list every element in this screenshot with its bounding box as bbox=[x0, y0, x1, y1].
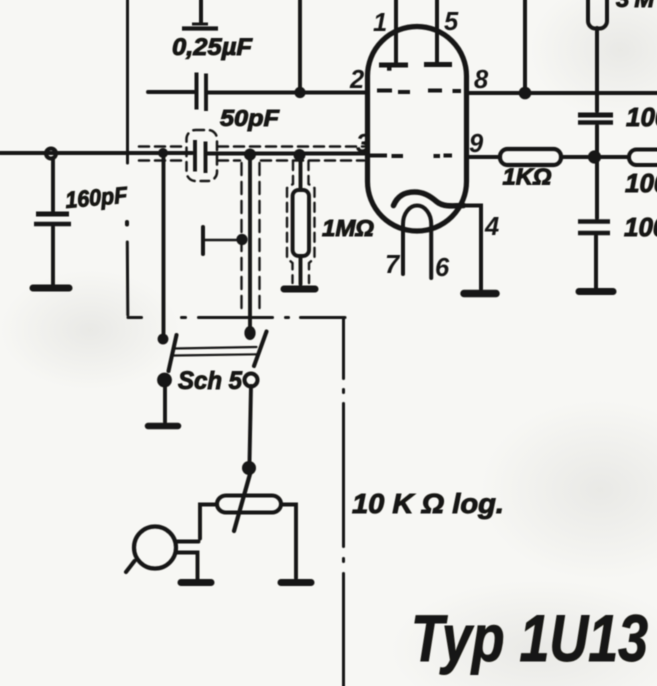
svg-text:1MΩ: 1MΩ bbox=[322, 215, 374, 241]
wire 0.25uF left lead bbox=[148, 90, 194, 94]
node A input terminal bbox=[46, 149, 56, 159]
potentiometer P1 body bbox=[217, 496, 281, 513]
junction wiper dot bbox=[242, 461, 256, 475]
junction grid2 to switch right shield bbox=[244, 149, 256, 161]
svg-text:0,25µF: 0,25µF bbox=[172, 34, 253, 61]
microphone M1 bbox=[134, 527, 176, 569]
resistor R3 top right partial bbox=[588, 0, 607, 29]
svg-text:3M.: 3M. bbox=[616, 0, 657, 13]
svg-text:Sch 5: Sch 5 bbox=[178, 367, 243, 395]
capacitor C2 50pF bbox=[195, 140, 206, 173]
ground under 160pF bbox=[33, 285, 69, 292]
grid1 dashed electrode bbox=[377, 91, 461, 93]
svg-text:6: 6 bbox=[435, 254, 450, 282]
wire grid2 input line left bbox=[0, 151, 192, 155]
junction grid1 bbox=[294, 87, 305, 98]
heater filament loop bbox=[403, 206, 431, 279]
switch Sch5 left contact dot bbox=[158, 334, 169, 345]
junction grid2 to switch left bbox=[158, 148, 168, 158]
wire shield chain bottom horizontal bbox=[128, 316, 345, 319]
microphone handle bbox=[126, 561, 135, 572]
wire rail segments bbox=[596, 28, 597, 290]
wire grid1 line pin2 bbox=[208, 91, 368, 95]
svg-text:7: 7 bbox=[385, 251, 401, 279]
svg-text:8: 8 bbox=[474, 66, 489, 94]
svg-text:2: 2 bbox=[349, 66, 364, 94]
capacitor C1 0.25uF bbox=[197, 73, 207, 112]
wire pin5 lead from top bbox=[435, 0, 439, 62]
wire pot right lead bbox=[281, 505, 296, 579]
wire vertical from top to pin8 junction bbox=[523, 0, 527, 93]
switch coupling double line bbox=[174, 347, 257, 356]
potentiometer P1 wiper arm bbox=[234, 474, 250, 531]
svg-text:100: 100 bbox=[624, 212, 657, 242]
cathode arc bbox=[394, 192, 464, 206]
junction tap dot bbox=[236, 234, 247, 245]
shield dashed pair down to switch bbox=[242, 163, 260, 314]
ground pin4 bbox=[464, 290, 496, 298]
ground under rail bbox=[579, 288, 613, 295]
anode plate bar right bbox=[424, 62, 452, 67]
capacitor C1a top plate to edge bbox=[182, 0, 218, 29]
junction grid2 to 1M resistor bbox=[294, 149, 306, 161]
wire pin9 to 1K bbox=[466, 155, 500, 159]
ground switch bbox=[148, 423, 178, 430]
wire 1K to rail junction bbox=[561, 155, 629, 159]
wire 1M bottom lead bbox=[299, 256, 303, 284]
junction pin8 bbox=[519, 87, 532, 100]
resistor R4 right partial bbox=[629, 150, 657, 166]
wire switch left to ground bbox=[163, 387, 167, 422]
capacitor C4 100 bbox=[578, 115, 613, 123]
wire grid2 middle bbox=[208, 151, 369, 155]
resistor R2 1K bbox=[500, 149, 561, 165]
svg-text:100: 100 bbox=[626, 102, 657, 132]
svg-text:5: 5 bbox=[444, 8, 459, 36]
shield dashed box around 50pF bbox=[187, 130, 218, 181]
wire shield chain right vertical bbox=[342, 318, 345, 686]
shield dashed below grid2 wire bbox=[139, 159, 364, 162]
wire pin1 lead from top bbox=[394, 0, 398, 62]
svg-text:3: 3 bbox=[356, 130, 370, 158]
svg-text:160pF: 160pF bbox=[64, 182, 129, 213]
switch Sch5 left pole dot bbox=[157, 373, 172, 388]
shield dashed above grid2 wire bbox=[139, 145, 364, 148]
svg-text:9: 9 bbox=[469, 130, 484, 158]
grid2 dashed electrode bbox=[369, 154, 452, 159]
svg-text:100: 100 bbox=[625, 168, 657, 198]
ground pot left bbox=[181, 579, 211, 586]
switch Sch5 right contact dot bbox=[244, 326, 255, 340]
ground under 1M bbox=[284, 286, 315, 293]
wire switch right from shield bbox=[248, 154, 252, 328]
wire microphone to pot left bbox=[176, 542, 199, 581]
svg-text:1KΩ: 1KΩ bbox=[503, 164, 552, 190]
svg-text:Typ 1U13: Typ 1U13 bbox=[411, 601, 648, 675]
wire 1M top lead bbox=[299, 155, 303, 190]
tube U1 envelope bbox=[368, 27, 467, 232]
svg-text:1: 1 bbox=[373, 9, 387, 37]
wire pin4 to ground bbox=[464, 206, 482, 290]
capacitor C3 160pF bbox=[34, 214, 71, 224]
wire pin8 line bbox=[466, 91, 657, 95]
shield dashed around 1M bbox=[287, 161, 315, 283]
wire switch left from grid2 bbox=[162, 153, 166, 336]
wire vertical from top to grid1 junction bbox=[298, 0, 302, 93]
capacitor C5 100 bbox=[578, 222, 610, 234]
switch Sch5 right blade bbox=[254, 332, 267, 367]
wire 160pF bottom lead bbox=[51, 227, 55, 285]
svg-text:10 K Ω log.: 10 K Ω log. bbox=[352, 488, 504, 519]
wire left shield border vertical bbox=[126, 0, 130, 315]
wire pot left lead bbox=[200, 505, 217, 539]
switch Sch5 right pole circle bbox=[245, 374, 258, 387]
anode plate bar left bbox=[379, 65, 408, 69]
wire tap bar and lead to shield bbox=[203, 227, 238, 254]
switch Sch5 left blade bbox=[169, 335, 177, 371]
resistor R1 1M bbox=[293, 190, 309, 256]
wire 160pF top lead bbox=[51, 158, 55, 211]
wire switch to pot wiper bbox=[250, 386, 252, 462]
ground pot right bbox=[281, 579, 311, 586]
svg-text:50pF: 50pF bbox=[220, 105, 280, 131]
junction rail pin9 bbox=[588, 150, 601, 163]
svg-text:4: 4 bbox=[484, 213, 499, 241]
